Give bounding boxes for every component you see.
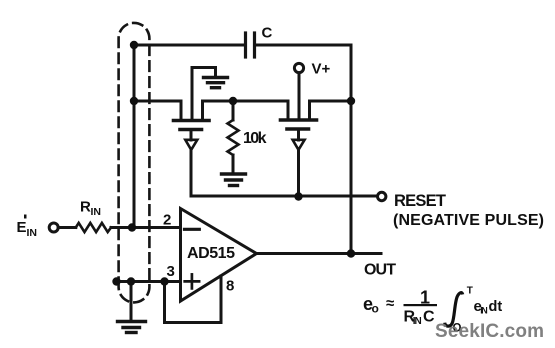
transistor Q1 — [174, 68, 210, 197]
ground (input) — [118, 322, 146, 333]
capacitor C — [246, 33, 255, 57]
svg-text:AD515: AD515 — [187, 245, 235, 262]
svg-text:IN: IN — [480, 306, 488, 316]
junction: guard shield / pin 3 wire — [112, 277, 120, 285]
svg-text:R: R — [80, 199, 91, 216]
svg-text:(NEGATIVE PULSE): (NEGATIVE PULSE) — [393, 212, 544, 229]
resistor R_IN — [76, 223, 111, 232]
svg-text:IN: IN — [91, 206, 102, 218]
junction: feedback vertical / output wire — [347, 249, 355, 257]
svg-text:≈: ≈ — [386, 295, 394, 312]
wire: E_IN to R_IN — [58, 226, 76, 229]
transistor Q2 — [281, 73, 317, 197]
svg-text:V+: V+ — [312, 61, 331, 78]
wire: second horizontal middle segment — [203, 100, 289, 103]
wire: right vertical feedback (top to OUT) — [350, 45, 353, 253]
terminal V+ — [294, 63, 303, 72]
op-amp U1 AD515 — [181, 209, 257, 302]
junction: guard line / top feedback wire — [130, 41, 138, 49]
wire: pin 3 — [117, 280, 181, 283]
wire: second horizontal left segment — [134, 100, 181, 103]
wire: ground stem at pin3 — [130, 282, 133, 320]
svg-text:dt: dt — [489, 299, 503, 315]
svg-text:SeekIC.com: SeekIC.com — [435, 321, 544, 342]
svg-text:C: C — [423, 308, 435, 325]
label E_IN — [17, 215, 38, 240]
svg-text:OUT: OUT — [364, 262, 396, 279]
guard shield (dashed stadium) — [119, 23, 150, 303]
svg-text:IN: IN — [413, 316, 422, 327]
formula e_o = 1/(R_IN C) integral e_IN dt — [363, 286, 502, 335]
terminal RESET — [378, 192, 386, 200]
resistor 10k — [228, 101, 239, 173]
svg-text:8: 8 — [226, 278, 234, 295]
wire: Q1 gate-ground link — [192, 68, 216, 77]
wire: top feedback horizontal left (summing node to C) — [134, 44, 246, 47]
wire: second horizontal right segment — [310, 100, 352, 103]
junction: ground stem / pin 3 wire — [127, 277, 135, 285]
wire: top feedback horizontal right (C to right vertical) — [255, 44, 352, 47]
svg-text:E: E — [17, 219, 27, 236]
terminal E_IN — [49, 223, 58, 232]
junction: guard line / pin 2 wire (summing node) — [128, 223, 136, 231]
svg-text:2: 2 — [163, 212, 171, 229]
svg-text:3: 3 — [167, 263, 175, 280]
junction: guard line / switch rail — [130, 97, 138, 105]
junction: pin 8 loop / pin 3 wire — [160, 277, 168, 285]
wire: pin 2 input — [111, 226, 181, 229]
svg-text:o: o — [372, 302, 379, 316]
junction: switch rail / feedback vertical — [347, 97, 355, 105]
ground (top, Q1) — [204, 78, 228, 88]
svg-text:RESET: RESET — [394, 192, 446, 210]
svg-text:C: C — [262, 25, 273, 42]
svg-text:10k: 10k — [243, 130, 267, 147]
label R_IN — [80, 199, 101, 219]
svg-text:IN: IN — [27, 227, 38, 239]
junction: 10k / switch rail — [229, 97, 237, 105]
wire: pin 8 loop — [165, 276, 222, 323]
wire: guard vertical (summing junction) — [133, 45, 136, 228]
svg-text:T: T — [467, 286, 473, 297]
junction: Q2 gate / RESET wire — [294, 192, 302, 200]
wire: output — [257, 252, 382, 255]
wire: RESET horizontal — [191, 195, 377, 198]
ground (10k) — [222, 174, 246, 186]
